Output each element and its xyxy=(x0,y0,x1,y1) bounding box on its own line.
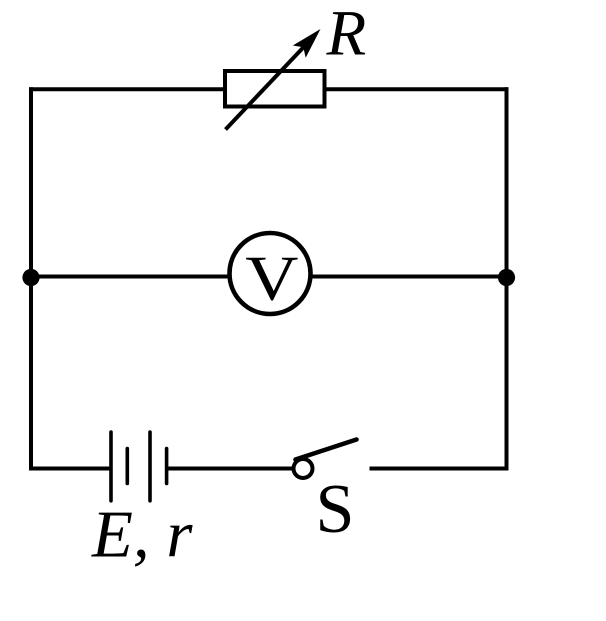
battery E,r: short plate 1 xyxy=(126,449,130,484)
node: right junction xyxy=(498,269,515,286)
wire: middle right segment xyxy=(311,275,508,279)
svg-text:S: S xyxy=(316,471,355,548)
battery E,r: long plate 2 xyxy=(148,432,152,501)
resistor R (variable, rheostat) body xyxy=(225,71,325,107)
resistor R arrowhead xyxy=(293,29,321,58)
wire: bottom right segment xyxy=(370,467,509,471)
svg-text:E, r: E, r xyxy=(91,497,193,571)
label S xyxy=(316,471,355,548)
svg-text:V: V xyxy=(245,243,298,313)
svg-text:R: R xyxy=(326,0,367,70)
battery E,r: long plate 1 xyxy=(109,432,113,501)
wire: left vertical xyxy=(29,87,33,470)
label E,r xyxy=(91,497,193,571)
node: left junction xyxy=(22,269,39,286)
wire: middle left segment xyxy=(29,275,229,279)
switch S: lever xyxy=(296,440,357,460)
switch S: contact circle xyxy=(294,459,313,478)
wire: top right segment xyxy=(326,87,509,91)
wire: bottom left segment xyxy=(29,467,110,471)
voltmeter V body xyxy=(230,233,311,314)
wire: right vertical xyxy=(505,87,509,470)
battery E,r: short plate 2 xyxy=(165,449,169,484)
wire: bottom middle segment xyxy=(168,467,294,471)
voltmeter V letter xyxy=(245,243,298,313)
wire: top left segment xyxy=(29,87,224,91)
label R xyxy=(326,0,367,70)
resistor R arrow shaft xyxy=(226,43,309,130)
